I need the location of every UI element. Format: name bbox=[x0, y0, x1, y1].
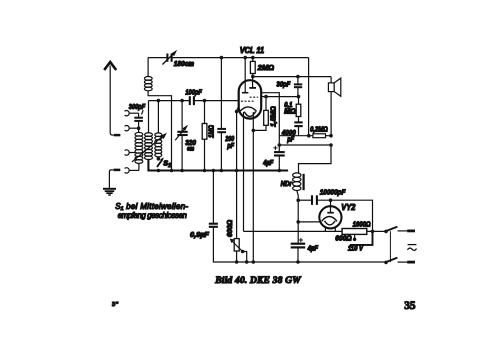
svg-text:empfang geschlossen: empfang geschlossen bbox=[118, 211, 187, 220]
mains switch top contact bbox=[384, 230, 388, 234]
antenna symbol bbox=[104, 62, 120, 135]
wire screen feed vertical bbox=[308, 58, 310, 136]
coupling coil L4 bbox=[144, 58, 152, 91]
mains switch bottom contact bbox=[384, 261, 388, 265]
capacitor 0.9uF bbox=[209, 171, 386, 263]
bottom wire nodes bbox=[235, 260, 300, 264]
node 4uF second top bbox=[296, 220, 300, 224]
earth socket terminal (hook 3) bbox=[125, 150, 136, 155]
node 320cm top bbox=[180, 99, 184, 103]
switch gang link bbox=[389, 231, 391, 262]
svg-text:300pF: 300pF bbox=[129, 104, 146, 111]
svg-text:2MΩ: 2MΩ bbox=[257, 63, 275, 72]
VCL11 grid (dashed) bbox=[250, 96, 258, 98]
svg-text:4µF: 4µF bbox=[307, 243, 319, 252]
wire 1600 right bbox=[367, 230, 386, 232]
node VY2 anode top bbox=[329, 198, 333, 202]
capacitor 10000pF bbox=[298, 195, 372, 231]
trimmer capacitor 180cm bbox=[162, 50, 177, 65]
node y145 left bbox=[278, 143, 282, 147]
speaker bbox=[328, 77, 340, 136]
electrolytic capacitor 4uF (second) bbox=[291, 238, 306, 262]
antenna socket terminal (hook 1) bbox=[125, 111, 139, 116]
choke NDr bbox=[293, 173, 304, 200]
VCL11 pentode anode bbox=[249, 77, 256, 88]
wire L3 top feed bbox=[157, 101, 159, 133]
VY2 cathode cup bbox=[325, 221, 336, 225]
wire to choke bbox=[299, 145, 332, 173]
ground bbox=[103, 170, 120, 195]
node 30pF top bbox=[296, 75, 300, 79]
node 10000pF / 1600 junction bbox=[371, 230, 375, 234]
node y145 right bbox=[329, 143, 333, 147]
svg-text:0,2MΩ: 0,2MΩ bbox=[310, 126, 328, 133]
node A (300pF / coil junction) bbox=[137, 126, 141, 130]
svg-text:320: 320 bbox=[185, 138, 196, 147]
AC supply symbol bbox=[407, 245, 416, 251]
wire grid line W2 bbox=[149, 100, 190, 102]
VY2 anode bbox=[327, 200, 334, 213]
svg-text:S1: S1 bbox=[163, 159, 171, 169]
mains switch top arm bbox=[387, 227, 398, 231]
node anode/2M junction bbox=[251, 75, 255, 79]
svg-text:100pF: 100pF bbox=[185, 89, 202, 96]
bus junction nodes bbox=[170, 169, 281, 173]
VCL11 grid 2 (dashed) bbox=[241, 100, 254, 102]
switch S1 bbox=[157, 157, 164, 172]
wire VY2 cathode left bbox=[298, 221, 319, 223]
node 2M top bbox=[251, 56, 255, 60]
tube VCL11 envelope bbox=[239, 80, 262, 118]
wire 4000pF bottom link bbox=[279, 135, 313, 137]
wire 0.2M right bbox=[326, 135, 332, 137]
svg-text:110 V: 110 V bbox=[348, 246, 364, 253]
node 30pF/0.1M junction bbox=[297, 95, 301, 99]
coil L2 tuned winding bbox=[145, 101, 153, 170]
resistor 0.2MOhm bbox=[313, 134, 326, 138]
wire grid2 to 600-ohm feed bbox=[236, 112, 238, 239]
electrolytic capacitor 4uF (first) bbox=[273, 145, 284, 171]
svg-text:4µF: 4µF bbox=[262, 158, 274, 167]
svg-text:pF: pF bbox=[226, 143, 234, 150]
earth socket terminal (hook 4) bbox=[125, 168, 139, 173]
svg-text:600Ω: 600Ω bbox=[335, 235, 352, 242]
svg-text:pF: pF bbox=[286, 136, 294, 143]
svg-text:30pF: 30pF bbox=[276, 82, 291, 89]
VCL11 triode anode bbox=[242, 58, 249, 93]
wire top bus W1 bbox=[148, 57, 167, 59]
resistor 1.5MOhm bbox=[253, 97, 268, 131]
node 200pF top bbox=[220, 56, 224, 60]
svg-text:10000pF: 10000pF bbox=[320, 187, 346, 196]
node 0.2M left bbox=[307, 134, 311, 138]
capacitor 4000pF bbox=[294, 122, 302, 135]
resistor 2MOhm bbox=[250, 58, 255, 77]
node triode anode top bbox=[243, 56, 247, 60]
variable coupling arrow bbox=[132, 133, 167, 162]
capacitor 300pF bbox=[134, 110, 143, 132]
variable capacitor 320cm bbox=[175, 101, 188, 171]
wire coupling-coil to chassis bbox=[148, 91, 171, 171]
capacitor 200pF bbox=[217, 58, 226, 171]
svg-text:600Ω: 600Ω bbox=[227, 219, 234, 237]
svg-text:Bild 40. DKE 38 GW: Bild 40. DKE 38 GW bbox=[214, 275, 302, 286]
wire choke node down bbox=[297, 200, 299, 243]
wire heater to VY2 line bbox=[244, 230, 343, 232]
tap on 1600 Ohm bbox=[353, 234, 357, 241]
svg-text:NDr: NDr bbox=[281, 179, 293, 188]
node choke bottom bbox=[296, 198, 300, 202]
node coil L3 top bbox=[157, 99, 161, 103]
antenna socket terminal (hook 2) bbox=[125, 126, 139, 131]
node 1M top bbox=[203, 99, 207, 103]
svg-text:1600Ω: 1600Ω bbox=[353, 222, 371, 229]
VCL11 cathode cup bbox=[244, 112, 255, 117]
chassis bus wire bbox=[148, 159, 288, 171]
resistor 0.1MOhm bbox=[296, 97, 301, 122]
wire pentode anode-cathode y92.7 bbox=[261, 93, 279, 145]
wire heater 1 (to VY2 line) bbox=[243, 112, 245, 231]
coil L3 shortwave winding bbox=[155, 133, 162, 158]
svg-text:VY2: VY2 bbox=[341, 202, 355, 212]
svg-text:180cm: 180cm bbox=[174, 61, 194, 68]
node 1.5M top bbox=[264, 95, 268, 99]
wire heater 2 (to bottom line) bbox=[252, 112, 254, 262]
110V link bracket bbox=[350, 231, 373, 245]
resistor 1MOhm bbox=[202, 101, 207, 171]
svg-text:1MΩ: 1MΩ bbox=[209, 125, 216, 138]
svg-text:MΩ: MΩ bbox=[284, 108, 296, 115]
wire anode W4 bbox=[253, 76, 331, 78]
svg-text:3": 3" bbox=[112, 301, 119, 308]
wire cathode bypass y145 bbox=[279, 144, 331, 146]
capacitor 100pF bbox=[190, 96, 194, 105]
mains plug pin bottom bbox=[398, 261, 415, 263]
VY2 cathode arc bbox=[322, 217, 337, 222]
node cathode / 1.5M junction bbox=[252, 129, 256, 133]
mains switch bottom arm bbox=[387, 258, 398, 262]
coil L1 antenna winding bbox=[135, 132, 143, 170]
resistor 1600 Ohm bbox=[342, 229, 367, 235]
svg-text:1,5MΩ: 1,5MΩ bbox=[271, 106, 278, 127]
node 0.2M right bbox=[329, 134, 333, 138]
svg-text:cm: cm bbox=[187, 147, 195, 153]
mains plug pin top bbox=[398, 230, 415, 232]
VCL11 cathode-side node bbox=[235, 105, 240, 114]
svg-text:S₁ bei Mittelwellen-: S₁ bei Mittelwellen- bbox=[115, 202, 188, 211]
svg-text:VCL 11: VCL 11 bbox=[240, 46, 265, 55]
svg-text:0,9µF: 0,9µF bbox=[190, 230, 209, 239]
variable resistor 600 Ohm bbox=[230, 239, 247, 263]
capacitor 30pF bbox=[294, 77, 302, 97]
wire pentode screen y96.6 bbox=[261, 96, 299, 98]
svg-text:35: 35 bbox=[404, 299, 415, 312]
tube VY2 envelope bbox=[319, 206, 341, 228]
VY2 legs bbox=[325, 228, 335, 232]
VCL11 cathode arc bbox=[240, 107, 257, 112]
